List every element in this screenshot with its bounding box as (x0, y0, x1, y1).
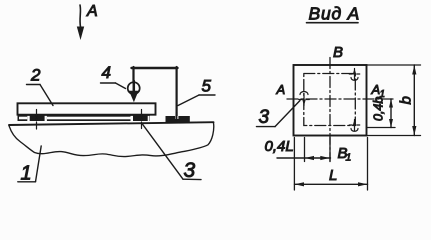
svg-text:0,4b: 0,4b (371, 97, 385, 121)
svg-text:B: B (333, 44, 343, 61)
svg-text:5: 5 (202, 77, 212, 96)
svg-text:b: b (398, 96, 415, 104)
svg-text:1: 1 (346, 152, 352, 164)
svg-text:А: А (86, 3, 98, 20)
svg-text:L: L (329, 167, 337, 184)
svg-text:3: 3 (259, 107, 270, 128)
svg-text:3: 3 (184, 159, 196, 182)
svg-text:2: 2 (30, 66, 41, 85)
svg-text:4: 4 (102, 63, 111, 82)
svg-text:A: A (276, 82, 286, 97)
svg-text:0,4L: 0,4L (265, 138, 294, 155)
svg-text:Вид А: Вид А (309, 4, 361, 24)
svg-text:1: 1 (380, 89, 386, 100)
